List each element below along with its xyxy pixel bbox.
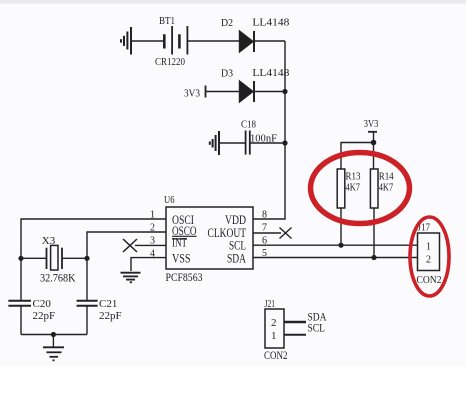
svg-text:2: 2	[426, 255, 431, 266]
svg-text:SDA: SDA	[227, 251, 246, 265]
wire VDD rail	[253, 41, 285, 219]
svg-text:BT1: BT1	[159, 15, 175, 27]
wire left rail to C20	[20, 258, 22, 300]
node SDA/R14	[371, 255, 376, 260]
node X3 right	[84, 256, 89, 261]
svg-text:X3: X3	[42, 235, 56, 247]
wire	[254, 40, 285, 42]
wire	[86, 306, 88, 335]
svg-text:C21: C21	[99, 298, 117, 310]
ground (VSS)	[121, 273, 141, 283]
svg-text:U6: U6	[164, 195, 175, 206]
svg-text:4K7: 4K7	[379, 182, 394, 194]
svg-text:CR1220: CR1220	[155, 56, 185, 68]
svg-text:22pF: 22pF	[99, 310, 122, 322]
node C18 junction	[282, 140, 287, 145]
wire X3 right	[62, 257, 87, 259]
wire J21 pin2 SDA	[284, 321, 306, 323]
power 3V3 (pullups)	[368, 132, 377, 143]
capacitor C20	[8, 301, 31, 306]
wire	[20, 306, 22, 335]
svg-text:1: 1	[426, 242, 431, 253]
svg-text:PCF8563: PCF8563	[166, 272, 203, 284]
svg-text:2: 2	[271, 317, 277, 329]
diode D2	[240, 31, 255, 52]
svg-text:CON2: CON2	[417, 274, 442, 286]
svg-text:6: 6	[262, 236, 267, 247]
wire 3V3 to R14	[373, 143, 375, 170]
red highlight ellipse (J17)	[410, 217, 449, 296]
wire pin1 OSCI	[21, 219, 166, 258]
node X3 left	[18, 256, 23, 261]
capacitor C21	[77, 301, 98, 306]
svg-text:1: 1	[150, 210, 155, 221]
wire J21 pin1 SCL	[284, 334, 306, 336]
svg-text:C18: C18	[241, 119, 256, 131]
svg-text:SCL: SCL	[308, 321, 326, 335]
ground (C18)	[210, 131, 219, 155]
pin3 no-connect X	[123, 239, 137, 252]
svg-text:5: 5	[262, 248, 267, 259]
wire right rail to C21	[86, 258, 88, 300]
connector J17 box	[418, 233, 440, 271]
ground (crystal caps)	[43, 347, 64, 360]
wire	[206, 91, 240, 93]
pin7 no-connect X	[280, 228, 292, 239]
power 3V3 rail bar	[205, 86, 207, 98]
IC U6 box	[166, 207, 253, 269]
wire pin2 OSCO	[87, 232, 166, 258]
svg-text:32.768K: 32.768K	[40, 273, 76, 285]
red highlight ellipse (pullup resistors)	[311, 153, 410, 224]
svg-text:LL4148: LL4148	[252, 17, 290, 29]
capacitor C18	[246, 131, 250, 155]
wire R14 to SDA	[373, 208, 375, 258]
svg-text:INT: INT	[172, 236, 187, 250]
wire ground stem	[52, 335, 54, 347]
resistor R14	[370, 169, 378, 208]
node D3 junction	[282, 89, 287, 94]
battery BT1	[164, 26, 187, 55]
crystal X3	[47, 245, 63, 270]
wire pin3 INT	[135, 244, 166, 246]
wire pin4 VSS	[131, 258, 166, 271]
svg-text:100nF: 100nF	[250, 133, 277, 145]
wire SCL net	[253, 244, 418, 246]
resistor R13	[337, 169, 345, 208]
svg-text:3: 3	[150, 236, 155, 247]
svg-text:VSS: VSS	[172, 251, 191, 265]
svg-text:4K7: 4K7	[346, 182, 361, 194]
wire	[219, 142, 245, 144]
wire pin7 CLKOUT stub	[253, 232, 281, 234]
svg-text:C20: C20	[33, 298, 52, 310]
svg-text:D3: D3	[221, 68, 233, 80]
ground (battery negative)	[121, 27, 131, 55]
svg-text:4: 4	[150, 249, 155, 260]
wire	[187, 40, 239, 42]
wire 3V3 to R13	[341, 143, 374, 170]
svg-text:VDD: VDD	[225, 213, 246, 227]
wire	[131, 40, 163, 42]
connector J21 box	[265, 309, 284, 348]
node SCL/R13	[338, 243, 343, 248]
svg-text:7: 7	[262, 223, 267, 234]
svg-text:LL4148: LL4148	[252, 67, 290, 79]
svg-text:8: 8	[262, 210, 267, 221]
wire SDA net	[253, 257, 418, 259]
svg-text:J21: J21	[265, 299, 276, 310]
node bottom ground junction	[51, 332, 56, 337]
svg-text:3V3: 3V3	[364, 118, 379, 130]
diode D3	[240, 81, 255, 102]
node 3V3 junction	[371, 140, 377, 146]
svg-text:1: 1	[271, 330, 277, 342]
svg-text:CON2: CON2	[264, 350, 288, 362]
svg-text:D2: D2	[221, 17, 233, 29]
wire bottom	[21, 334, 87, 336]
wire R13 to SCL	[340, 208, 342, 245]
svg-text:3V3: 3V3	[184, 88, 200, 100]
svg-text:22pF: 22pF	[33, 310, 56, 322]
svg-text:2: 2	[150, 223, 155, 234]
wire	[254, 91, 285, 93]
svg-text:CLKOUT: CLKOUT	[208, 226, 247, 240]
wire X3 left	[21, 257, 47, 259]
wire	[250, 142, 285, 144]
